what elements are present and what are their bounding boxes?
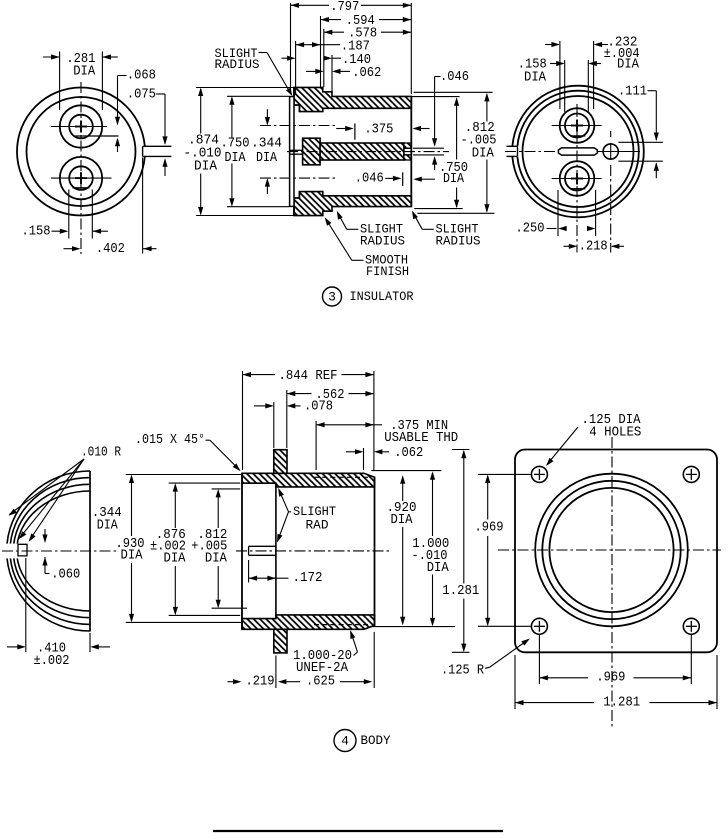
- .410 ext left: [25, 558, 27, 652]
- center slot: [558, 148, 597, 155]
- svg-text:RADIUS: RADIUS: [215, 58, 260, 72]
- bolt hole BR: [683, 618, 699, 634]
- dim .812 +.005 DIA: [212, 488, 241, 490]
- .158 ext left: [68, 190, 70, 239]
- .250 ext right: [595, 190, 597, 236]
- center web thin hatched: [320, 143, 404, 160]
- outer circle .874 dia: [17, 88, 145, 216]
- bolt hole TR: [683, 466, 699, 482]
- dim .158 DIA: [564, 60, 566, 112]
- right face: [410, 96, 412, 206]
- ext 1.281 bottom: [452, 651, 470, 653]
- svg-text:SLIGHT: SLIGHT: [293, 505, 336, 519]
- top hole outer circle: [60, 105, 102, 147]
- svg-text:DIA: DIA: [472, 145, 495, 161]
- ext step bottom right: [417, 212, 494, 214]
- ext flange top: [196, 87, 294, 89]
- center web block hatched: [303, 138, 321, 165]
- top hole inner: [565, 114, 589, 138]
- body flange tab top hatched: [274, 450, 287, 474]
- flange face bottom seg: [293, 206, 295, 215]
- flange vertical centerline: [611, 437, 613, 727]
- svg-text:±.002: ±.002: [34, 653, 70, 669]
- ext cyl top right: [411, 96, 459, 98]
- .250 ext left: [557, 190, 559, 236]
- small hole ext down: [610, 165, 612, 253]
- svg-text:DIA: DIA: [164, 551, 187, 567]
- bottom hole outer: [560, 161, 595, 196]
- vertical centerline: [80, 82, 82, 254]
- svg-text:INSULATOR: INSULATOR: [350, 290, 414, 304]
- inner circle: [27, 97, 136, 206]
- body left face: [241, 473, 243, 629]
- body flange tab bottom hatched: [274, 629, 287, 653]
- svg-text:FINISH: FINISH: [366, 265, 409, 279]
- front lip: [290, 97, 294, 207]
- ext .797 left: [290, 3, 292, 94]
- svg-text:.111: .111: [618, 84, 647, 100]
- top hole chord flat + ext: [75, 135, 119, 137]
- small hole: [603, 144, 618, 159]
- svg-text:RADIUS: RADIUS: [436, 234, 481, 248]
- flange circle inner: [549, 488, 673, 612]
- ext chamfer: [363, 448, 365, 470]
- ext flange bottom: [196, 215, 294, 217]
- svg-text:.068: .068: [127, 67, 156, 83]
- .111 ext bottom: [618, 160, 663, 162]
- .111 ext top: [618, 141, 663, 143]
- apex hole: [18, 544, 27, 556]
- dim .140: [282, 57, 288, 59]
- slot ext top: [413, 147, 444, 149]
- svg-text:.015 X 45°: .015 X 45°: [135, 432, 205, 448]
- ext tab left lower: [275, 656, 277, 689]
- svg-text:.078: .078: [304, 399, 333, 415]
- thread dashed bottom: [314, 624, 368, 626]
- bottom hole cross v: [80, 172, 82, 184]
- svg-text:1.281: 1.281: [442, 583, 479, 599]
- page bottom rule: [213, 830, 503, 832]
- bottom hole cross h: [75, 177, 87, 179]
- svg-text:.750: .750: [221, 135, 250, 151]
- svg-text:.969: .969: [596, 670, 625, 686]
- body right face: [374, 477, 376, 625]
- svg-text:BODY: BODY: [361, 734, 391, 748]
- dim .876 +-.002 DIA: [169, 482, 241, 484]
- bottom hole flat: [571, 188, 586, 190]
- keyway notch white mask: [140, 146, 149, 157]
- svg-text:RAD: RAD: [306, 518, 329, 532]
- keyway top line: [143, 145, 172, 147]
- svg-text:3: 3: [328, 290, 336, 305]
- lip bore top edge: [294, 104, 299, 106]
- web tip sliver bottom hatched: [404, 155, 411, 160]
- flange square: [515, 450, 717, 653]
- ext step top right: [414, 91, 493, 93]
- ext right face lower: [373, 632, 375, 688]
- .250 arrow left: [558, 226, 567, 231]
- .375 tick: [354, 123, 356, 139]
- web tip sliver top hatched: [404, 143, 411, 148]
- svg-text:UNEF-2A: UNEF-2A: [296, 660, 349, 676]
- svg-text:DIA: DIA: [97, 518, 118, 534]
- ext .930 bottom: [126, 621, 241, 623]
- main centerline: [287, 151, 449, 153]
- top hole outer: [560, 108, 595, 143]
- dome centerline: [2, 550, 118, 552]
- ext top right: [371, 470, 441, 472]
- svg-text:.250: .250: [516, 221, 545, 237]
- keyway bottom: [507, 155, 518, 157]
- slot ext bottom: [413, 154, 444, 156]
- svg-text:DIA: DIA: [524, 70, 547, 86]
- svg-text:DIA: DIA: [391, 512, 414, 528]
- dim .375 (bore): [336, 128, 346, 130]
- top hole centerline: [51, 126, 107, 128]
- dim 1.281 horizontal: [514, 655, 516, 709]
- ext .562 left: [286, 390, 288, 448]
- svg-text:.060: .060: [51, 566, 80, 582]
- .158 ext right: [91, 190, 93, 239]
- body top wall hatched: [242, 473, 375, 487]
- dim .281 DIA: [59, 52, 61, 111]
- ext .844/.562 right: [373, 371, 375, 470]
- svg-text:RADIUS: RADIUS: [360, 234, 405, 248]
- svg-text:.402: .402: [96, 241, 125, 257]
- ext .578 left: [323, 29, 325, 87]
- svg-text:.062: .062: [394, 445, 423, 461]
- top hole inner circle: [69, 115, 93, 139]
- ext .797 right: [410, 3, 412, 94]
- svg-text:1.281: 1.281: [603, 695, 640, 711]
- ext .140/.062 right: [331, 55, 333, 91]
- dim .344 DIA (hole spacing): [266, 109, 268, 124]
- svg-text:DIA: DIA: [194, 158, 218, 174]
- svg-text:DIA: DIA: [427, 560, 450, 576]
- top hole cross v: [80, 121, 82, 133]
- svg-text:.046: .046: [355, 171, 384, 187]
- svg-text:DIA: DIA: [443, 171, 464, 187]
- ext .969 top: [478, 473, 531, 475]
- dim .060: [44, 529, 46, 542]
- left keyway notch white mask: [509, 146, 519, 157]
- svg-text:DIA: DIA: [225, 150, 246, 166]
- bore shoulder edge: [275, 483, 277, 618]
- insulator right end view: [505, 86, 644, 253]
- svg-text:.062: .062: [352, 65, 381, 81]
- dim .062: [306, 70, 316, 72]
- ext .844 left: [242, 371, 244, 470]
- top hole centerline: [552, 125, 602, 127]
- svg-text:.010 R: .010 R: [81, 445, 121, 461]
- dome arc 2: [10, 478, 90, 625]
- label 3 INSULATOR: [323, 287, 342, 306]
- svg-text:.625: .625: [306, 674, 335, 690]
- keyway top: [507, 145, 518, 147]
- svg-text:.218: .218: [579, 239, 608, 255]
- right slot bottom: [404, 154, 411, 156]
- svg-text:.969: .969: [475, 520, 504, 536]
- .250 arrow right: [587, 226, 596, 231]
- svg-text:.172: .172: [293, 570, 323, 586]
- apex hole line bottom: [249, 554, 276, 556]
- svg-text:4 HOLES: 4 HOLES: [589, 424, 641, 440]
- ext .969 bottom: [478, 625, 531, 627]
- svg-text:.844 REF: .844 REF: [279, 368, 338, 384]
- flange front view: [498, 437, 721, 727]
- flange circle mid: [542, 481, 680, 619]
- bottom hole outer circle: [60, 157, 102, 199]
- label 4 BODY: [334, 730, 356, 752]
- bolt hole BL: [531, 618, 547, 634]
- .046 tick: [402, 172, 404, 186]
- ext .187 left: [295, 41, 297, 95]
- ext .930 top: [126, 474, 241, 476]
- left slot line top: [290, 149, 303, 151]
- bottom hole centerline: [51, 177, 112, 179]
- flange face top seg: [293, 87, 295, 96]
- svg-text:USABLE THD: USABLE THD: [384, 430, 458, 446]
- dome arc 4: [17, 491, 90, 611]
- bolt hole TL: [531, 466, 547, 482]
- insulator left end view: [17, 82, 171, 254]
- ext .078 left: [273, 402, 275, 448]
- svg-text:.219: .219: [246, 674, 275, 690]
- dome arc 3: [13, 484, 90, 617]
- keyway edge: [517, 146, 519, 156]
- vertical centerline segs: [576, 104, 578, 117]
- svg-text:.375: .375: [364, 121, 393, 137]
- top hole flat: [571, 135, 586, 137]
- svg-text:.046: .046: [440, 69, 469, 85]
- body section view: [236, 450, 389, 653]
- dim 1.000 -.010 DIA: [432, 473, 434, 536]
- bottom hole centerline: [552, 178, 602, 180]
- keyway inner edge: [142, 146, 144, 156]
- dim .625: [278, 679, 287, 684]
- dim .219: [228, 681, 234, 683]
- svg-text:DIA: DIA: [256, 150, 277, 166]
- ext .594 left: [320, 16, 322, 87]
- apex hole line top: [249, 545, 276, 547]
- .410 ext right: [89, 633, 91, 652]
- svg-text:.344: .344: [251, 135, 282, 151]
- ext 1.281 top: [452, 449, 470, 451]
- dome arc 1: [7, 471, 90, 631]
- bottom hole chord flat: [73, 187, 90, 189]
- top hole cross h: [75, 126, 87, 128]
- ext lip bottom: [227, 206, 289, 208]
- ext cyl bottom right: [414, 208, 462, 210]
- svg-text:4: 4: [341, 734, 349, 749]
- body centerline: [236, 550, 389, 552]
- svg-text:.158: .158: [22, 224, 51, 240]
- small hole centerline v upper: [610, 131, 612, 137]
- keyway ext line down: [142, 158, 144, 254]
- body dome end view: [2, 471, 118, 632]
- body bottom wall hatched: [242, 615, 375, 629]
- .172 ext: [248, 560, 250, 583]
- svg-text:.075: .075: [127, 86, 156, 102]
- thread dashed top: [314, 476, 368, 478]
- dim .969 horizontal: [538, 634, 540, 684]
- horizontal centerline left: [505, 151, 556, 153]
- apex hole white mask: [2, 544, 30, 559]
- ext thread start: [315, 421, 317, 470]
- bottom hole inner circle: [69, 166, 93, 190]
- second circle: [517, 91, 639, 213]
- third circle: [523, 96, 634, 207]
- lip bore bottom edge: [294, 197, 299, 199]
- flange circle outer: [535, 474, 688, 627]
- bottom hole inner: [565, 167, 589, 191]
- svg-text:DIA: DIA: [205, 551, 228, 567]
- svg-text:DIA: DIA: [121, 548, 144, 564]
- insulator section outline: [287, 87, 449, 215]
- flange/bottom wall hatched: [294, 192, 411, 216]
- left slot line bottom: [290, 153, 303, 155]
- right slot top: [404, 147, 411, 149]
- svg-text:DIA: DIA: [617, 57, 640, 73]
- svg-text:DIA: DIA: [73, 64, 96, 80]
- dim .232 +-.004 DIA: [559, 41, 561, 109]
- flange horizontal centerline: [498, 549, 721, 551]
- hole centerline exts: [260, 125, 336, 127]
- keyway bottom line: [143, 155, 172, 157]
- flange/top wall hatched: [294, 87, 411, 111]
- svg-text:.125 R: .125 R: [441, 663, 484, 679]
- dome chord line: [89, 471, 91, 632]
- ext lip top: [227, 95, 289, 97]
- outer circle: [512, 86, 644, 218]
- small hole centerline h: [597, 151, 641, 153]
- ext bottom right: [371, 626, 455, 628]
